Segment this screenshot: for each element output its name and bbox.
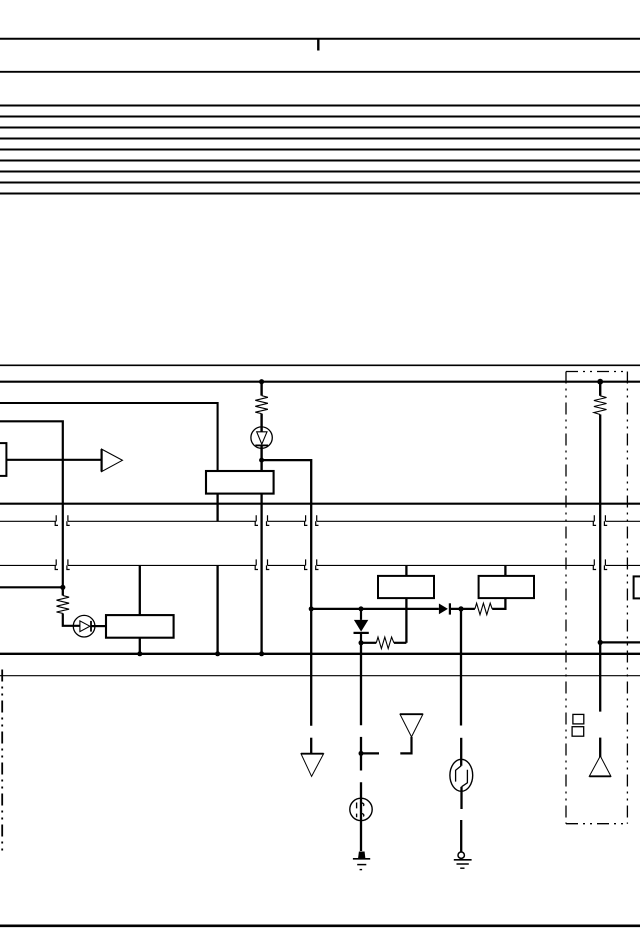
wire bottom border line xyxy=(0,924,640,927)
resistor R2 xyxy=(57,596,70,614)
ground G2 bars xyxy=(454,859,472,861)
wire bent from left edge to vertical x=62.8 down to node xyxy=(0,421,63,587)
connector hook row1 c xyxy=(255,515,258,525)
pin box 2 xyxy=(572,727,584,737)
capacitor C1 plates xyxy=(357,803,364,818)
connector hook row2 e xyxy=(305,559,308,569)
wire diode D1 to node xyxy=(360,633,362,643)
node stub on bus line 1 xyxy=(317,39,319,51)
diode D4 circle xyxy=(73,615,95,637)
wire x=600 to triangle T3 xyxy=(599,738,601,757)
ground G1 terminal blob xyxy=(358,852,365,859)
unit box U5 xyxy=(479,576,534,598)
wire x=217.6 below box U2 to connector row 1 xyxy=(216,494,218,522)
node junction dot at (361,642.8) xyxy=(359,640,364,645)
node junction dot at (600.2,642.4) xyxy=(598,640,603,645)
wire x=461 down to label gap xyxy=(460,609,462,726)
wire node to resistor R2 xyxy=(62,587,64,595)
wire bus line 2 (thick, y=653.8) xyxy=(0,653,640,655)
node junction dot at (62.8,587.3) xyxy=(60,585,65,590)
connector hook row2 g xyxy=(593,559,596,569)
wire bus line 4 xyxy=(0,116,640,118)
node junction dot at (217.6,653.8) xyxy=(215,651,220,656)
wire resistor R2 to diode circle D4 xyxy=(63,613,80,625)
connector box at left edge xyxy=(0,443,6,476)
node junction dot at (311.2,608.9) xyxy=(309,606,314,611)
connector hook row1 h xyxy=(604,515,607,525)
wire horizontal mid line A xyxy=(0,364,640,366)
unit box U3 xyxy=(106,615,174,638)
wire x=361 mid segment with node xyxy=(360,737,362,771)
diode D3 cathode bar xyxy=(255,444,268,446)
ground triangle T2 xyxy=(400,714,423,737)
diode D2 triangle xyxy=(439,604,448,615)
wire horizontal y=608.9 from node x=311 to diode D2 xyxy=(311,608,439,610)
resistor R1 xyxy=(255,396,268,414)
wire x=261.6 below box U2 to bus 2 xyxy=(260,494,262,654)
wire resistor R5 down to node at y=642.4 xyxy=(599,415,601,643)
connector hook row1 e xyxy=(305,515,308,525)
wire diode D2 to node x=461 xyxy=(450,608,475,610)
node junction dot at (361,753.4) xyxy=(359,751,364,756)
diode D3 triangle xyxy=(257,432,267,444)
unit box U4 xyxy=(378,576,434,598)
wire connector row 2 to box U3 top xyxy=(139,565,141,615)
connector hook row1 b xyxy=(67,515,70,525)
diode D2 cathode bar xyxy=(449,603,451,614)
diode D4 cathode bar xyxy=(90,621,92,632)
component outline dash-dot left edge xyxy=(1,670,3,855)
wire bus line 1 xyxy=(0,38,640,40)
wire from left edge to node at x=62.8 xyxy=(0,586,63,588)
wire x=461 to bulb L1 xyxy=(460,738,462,766)
diode D1 triangle xyxy=(354,620,368,632)
wire thin line y=675.7 xyxy=(0,675,640,677)
node junction dot at (361,608.9) xyxy=(359,606,364,611)
diode D4 triangle xyxy=(80,621,90,632)
node junction dot at (139.8,653.8) xyxy=(137,651,142,656)
wire from node B down to resistor R1 xyxy=(260,382,262,396)
component outline dash-dot box xyxy=(566,372,627,824)
connector hook row1 d xyxy=(267,515,270,525)
wire bus line 3 xyxy=(0,105,640,107)
ground triangle T1 xyxy=(301,754,324,777)
wire x=600 down to label gap xyxy=(599,642,601,711)
wire bus line 7 xyxy=(0,149,640,151)
resistor R4 xyxy=(475,603,492,615)
connector hook row2 a xyxy=(55,559,58,569)
wire resistor R1 to diode circle xyxy=(260,414,262,432)
amplifier U1 triangle xyxy=(102,449,123,472)
wire diode D4 to box U3 xyxy=(91,625,106,627)
diode D1 anode wire xyxy=(360,609,362,620)
wire x=600 node B to resistor R5 xyxy=(599,382,601,396)
wire box U4 bottom down to resistor return xyxy=(405,598,407,643)
wire x=361 into capacitor C1 xyxy=(360,782,362,851)
wire T2 stem and foot xyxy=(400,737,411,754)
wire from left box to amplifier xyxy=(6,459,101,461)
wire branch right from (361,753.4) xyxy=(361,752,379,754)
connector hook row1 f xyxy=(316,515,319,525)
control unit box U2 xyxy=(206,471,274,494)
wire diode D3 to node xyxy=(260,445,262,471)
diode D1 cathode bar xyxy=(354,632,369,634)
wire resistor R3 to vertical x=406.4 xyxy=(394,642,407,644)
wire bent from left edge to vertical x=217.6 xyxy=(0,403,218,471)
connector hook row2 f xyxy=(316,559,319,569)
wire stub connector row 2 to box U5 top xyxy=(504,565,506,576)
node junction dot on line B at x=261 xyxy=(259,379,264,384)
connector hook row2 d xyxy=(267,559,270,569)
wire x=361 down to label gap xyxy=(360,643,362,725)
wire bus line 2 xyxy=(0,71,640,73)
wire bulb L1 to label gap xyxy=(460,787,462,809)
wire horizontal mid line B xyxy=(0,381,640,383)
wire resistor R4 up into box U5 xyxy=(492,598,505,609)
connector hook row2 h xyxy=(604,559,607,569)
connector hook row2 c xyxy=(255,559,258,569)
connector hook row1 a xyxy=(55,515,58,525)
wire x=311 below label gap xyxy=(310,738,312,754)
ground G1 bars xyxy=(353,858,370,860)
bulb L1 filament xyxy=(456,766,468,787)
resistor R3 xyxy=(376,637,394,649)
wire bus line 8 xyxy=(0,160,640,162)
wire bus line 6 xyxy=(0,138,640,140)
ground G2 bolt circle xyxy=(458,852,464,858)
wire x=311 down to label gap xyxy=(310,609,312,726)
connector hook row1 g xyxy=(593,515,596,525)
wire bus line 9 xyxy=(0,171,640,173)
resistor R5 xyxy=(594,396,607,415)
wire x=217.6 from connector row 2 to bus 2 xyxy=(216,565,218,653)
diode D3 circle xyxy=(251,427,272,448)
wire bus line C (thick, y=503.7) xyxy=(0,503,640,505)
wire node to resistor R3 xyxy=(361,642,376,644)
unit box U6 at right edge xyxy=(634,576,640,598)
wire branch right to page edge xyxy=(600,641,640,643)
wire to ground G2 xyxy=(460,820,462,852)
wire bus line 5 xyxy=(0,127,640,129)
ground triangle T3 xyxy=(589,756,611,776)
capacitor C1 circle xyxy=(350,798,372,820)
wire box U3 bottom to bus 2 xyxy=(139,638,141,654)
connector hook row2 b xyxy=(67,559,70,569)
wire bus line 10 xyxy=(0,182,640,184)
pin box 1 xyxy=(573,714,584,724)
node junction dot on line B at x=600 xyxy=(597,379,603,385)
node junction dot at (261,460) xyxy=(259,458,264,463)
bulb L1 envelope xyxy=(450,759,473,791)
node junction dot at (261.6,653.8) xyxy=(259,651,264,656)
connector row 2 line segments xyxy=(0,564,640,566)
wire stub connector row 2 to box U4 top xyxy=(405,565,407,576)
node junction dot at (461,608.9) xyxy=(458,606,463,611)
wire branch right from node to x=311 xyxy=(262,460,312,609)
connector row 1 line segments xyxy=(0,520,640,522)
wire bus line 11 xyxy=(0,193,640,195)
